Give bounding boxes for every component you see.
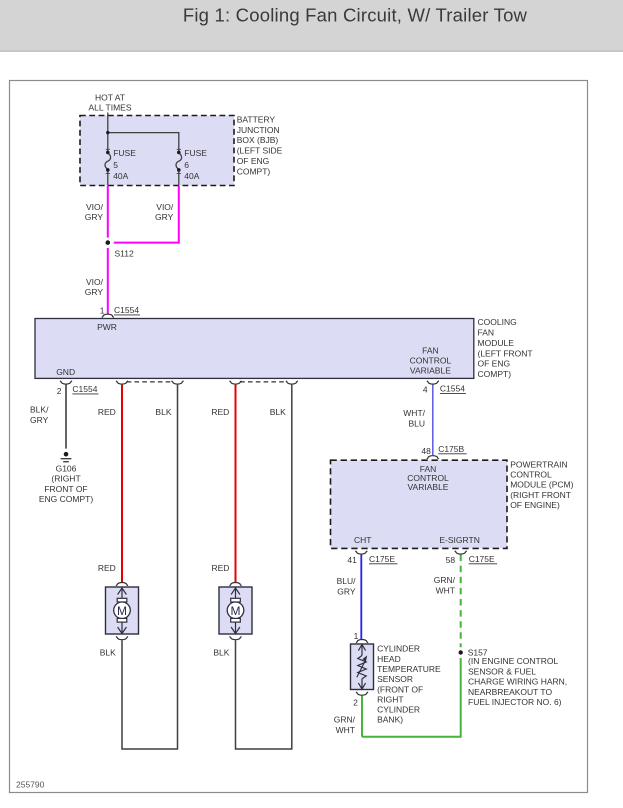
svg-text:VIO/: VIO/: [86, 202, 104, 212]
svg-text:MODULE (PCM): MODULE (PCM): [510, 480, 573, 490]
svg-text:255790: 255790: [16, 779, 45, 789]
svg-text:CONTROL: CONTROL: [410, 356, 452, 366]
svg-text:E-SIGRTN: E-SIGRTN: [439, 535, 479, 545]
svg-text:BANK): BANK): [377, 715, 403, 725]
svg-text:BATTERY: BATTERY: [237, 114, 276, 124]
svg-text:40A: 40A: [113, 171, 128, 181]
svg-text:C1554: C1554: [440, 384, 465, 394]
svg-text:1: 1: [100, 305, 105, 315]
svg-text:RED: RED: [211, 407, 229, 417]
svg-text:VIO/: VIO/: [156, 202, 174, 212]
svg-text:OF ENG: OF ENG: [237, 156, 270, 166]
svg-text:BLK: BLK: [270, 407, 286, 417]
svg-text:G106: G106: [56, 463, 77, 473]
svg-text:FUSE: FUSE: [113, 148, 136, 158]
svg-text:M: M: [231, 604, 241, 618]
svg-text:1: 1: [354, 631, 359, 641]
svg-text:POWERTRAIN: POWERTRAIN: [510, 459, 567, 469]
svg-text:COMPT): COMPT): [237, 167, 271, 177]
svg-text:(RIGHT: (RIGHT: [51, 474, 80, 484]
svg-text:RED: RED: [211, 563, 229, 573]
svg-text:FUSE: FUSE: [184, 148, 207, 158]
svg-text:(LEFT SIDE: (LEFT SIDE: [237, 146, 283, 156]
svg-text:4: 4: [423, 384, 428, 394]
svg-text:HEAD: HEAD: [377, 654, 401, 664]
svg-text:CYLINDER: CYLINDER: [377, 705, 420, 715]
svg-text:GRN/: GRN/: [334, 715, 356, 725]
svg-text:RIGHT: RIGHT: [377, 694, 403, 704]
svg-text:BLK: BLK: [100, 647, 116, 657]
svg-text:BLK: BLK: [213, 647, 229, 657]
svg-text:BLK: BLK: [155, 407, 171, 417]
svg-text:VIO/: VIO/: [86, 277, 104, 287]
svg-text:COOLING: COOLING: [478, 317, 517, 327]
svg-text:GRY: GRY: [337, 586, 356, 596]
svg-text:WHT: WHT: [336, 725, 355, 735]
svg-text:RED: RED: [98, 563, 116, 573]
svg-text:C175E: C175E: [469, 554, 495, 564]
svg-text:C175B: C175B: [438, 444, 464, 454]
svg-text:CYLINDER: CYLINDER: [377, 644, 420, 654]
svg-text:Fig 1: Cooling Fan Circuit, W/: Fig 1: Cooling Fan Circuit, W/ Trailer T…: [183, 4, 528, 25]
svg-text:58: 58: [446, 555, 456, 565]
svg-text:C1554: C1554: [114, 305, 139, 315]
svg-text:(IN ENGINE CONTROL: (IN ENGINE CONTROL: [468, 656, 558, 666]
svg-text:TEMPERATURE: TEMPERATURE: [377, 664, 441, 674]
svg-text:FAN: FAN: [422, 345, 439, 355]
svg-text:BLU/: BLU/: [337, 576, 357, 586]
svg-text:GRY: GRY: [85, 287, 104, 297]
svg-text:JUNCTION: JUNCTION: [237, 125, 280, 135]
svg-text:MODULE: MODULE: [478, 338, 515, 348]
svg-text:S112: S112: [115, 249, 134, 259]
svg-text:PWR: PWR: [97, 322, 117, 332]
svg-text:WHT/: WHT/: [403, 408, 425, 418]
svg-text:SENSOR: SENSOR: [377, 674, 413, 684]
svg-text:VARIABLE: VARIABLE: [408, 482, 449, 492]
svg-text:C1554: C1554: [72, 384, 97, 394]
svg-text:(FRONT OF: (FRONT OF: [377, 684, 423, 694]
svg-text:GRY: GRY: [30, 415, 49, 425]
svg-text:ALL TIMES: ALL TIMES: [89, 103, 132, 113]
svg-text:C175E: C175E: [369, 554, 395, 564]
svg-text:41: 41: [347, 555, 357, 565]
svg-text:BLU: BLU: [408, 418, 425, 428]
svg-text:40A: 40A: [184, 171, 199, 181]
svg-text:GRY: GRY: [155, 212, 174, 222]
svg-text:BLK/: BLK/: [30, 404, 49, 414]
svg-text:VARIABLE: VARIABLE: [410, 366, 451, 376]
svg-text:GND: GND: [56, 367, 75, 377]
svg-text:CHARGE WIRING HARN,: CHARGE WIRING HARN,: [468, 677, 567, 687]
svg-text:WHT: WHT: [436, 586, 455, 596]
svg-text:(RIGHT FRONT: (RIGHT FRONT: [510, 490, 571, 500]
svg-text:GRY: GRY: [85, 212, 104, 222]
svg-text:(LEFT FRONT: (LEFT FRONT: [478, 348, 533, 358]
svg-text:2: 2: [353, 698, 358, 708]
svg-text:48: 48: [421, 446, 431, 456]
svg-text:FRONT OF: FRONT OF: [44, 484, 87, 494]
svg-text:BOX (BJB): BOX (BJB): [237, 135, 279, 145]
svg-text:ENG COMPT): ENG COMPT): [39, 494, 93, 504]
svg-text:SENSOR & FUEL: SENSOR & FUEL: [468, 666, 536, 676]
svg-text:NEARBREAKOUT TO: NEARBREAKOUT TO: [468, 687, 552, 697]
svg-text:5: 5: [113, 160, 118, 170]
svg-text:CONTROL: CONTROL: [510, 470, 552, 480]
svg-text:FAN: FAN: [478, 328, 495, 338]
svg-text:2: 2: [57, 386, 62, 396]
svg-text:GRN/: GRN/: [434, 575, 456, 585]
svg-text:OF ENGINE): OF ENGINE): [510, 500, 560, 510]
svg-text:RED: RED: [98, 407, 116, 417]
svg-text:6: 6: [184, 160, 189, 170]
svg-text:HOT AT: HOT AT: [95, 92, 125, 102]
svg-text:CHT: CHT: [354, 535, 371, 545]
svg-text:OF ENG: OF ENG: [478, 359, 511, 369]
svg-text:FUEL INJECTOR NO. 6): FUEL INJECTOR NO. 6): [468, 697, 562, 707]
svg-text:M: M: [117, 604, 127, 618]
svg-text:COMPT): COMPT): [478, 369, 512, 379]
